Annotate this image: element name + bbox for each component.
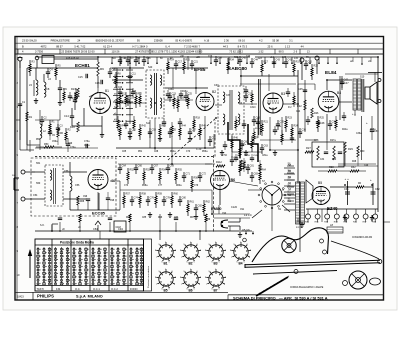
resistor R113 (240, 160, 242, 171)
resistor R29 (344, 142, 346, 154)
svg-text:C16: C16 (95, 82, 100, 85)
svg-text:C69: C69 (170, 165, 175, 168)
svg-text:235608: 235608 (154, 39, 163, 43)
svg-text:+ +: + + (352, 113, 356, 116)
svg-text:O.C.1: O.C.1 (93, 287, 100, 291)
svg-text:C82: C82 (198, 205, 203, 208)
svg-text:C77: C77 (158, 185, 163, 187)
svg-text:O.C.2: O.C.2 (111, 287, 118, 291)
output transformer S9 (353, 79, 357, 110)
svg-text:C73: C73 (124, 185, 129, 187)
svg-text:B5003429 03 01 237097: B5003429 03 01 237097 (96, 39, 125, 43)
IF can T2 (218, 86, 244, 134)
svg-text:C83: C83 (254, 173, 259, 176)
dial cord main (252, 228, 329, 262)
svg-text:R45: R45 (202, 125, 207, 128)
svg-text:B3: B3 (214, 262, 218, 266)
frame border (15, 37, 384, 301)
tuner dashed box (31, 158, 116, 216)
svg-text:C47: C47 (344, 82, 349, 85)
IF can T1 (146, 70, 164, 118)
transformer S ladder (287, 165, 294, 167)
svg-text:27 43763787385 2 1378 773 1 12: 27 43763787385 2 1378 773 1 1250 41263 1… (135, 50, 203, 54)
svg-text:C59a: C59a (52, 141, 58, 143)
svg-text:C8: C8 (46, 87, 50, 91)
svg-text:EM80: EM80 (211, 206, 222, 211)
header row text (22, 39, 310, 54)
svg-text:73 62 150 2: 73 62 150 2 (229, 50, 243, 54)
svg-text:R60: R60 (174, 193, 179, 196)
svg-text:C76a: C76a (84, 141, 90, 143)
svg-text:H 7 1 2864 0: H 7 1 2864 0 (133, 44, 148, 48)
svg-text:C66: C66 (138, 165, 143, 168)
wire mesh 2 (16, 119, 20, 121)
wires under B1 (72, 125, 102, 127)
svg-text:C 20: C 20 (196, 148, 202, 151)
svg-text:C85: C85 (142, 217, 147, 219)
svg-text:R66: R66 (158, 217, 163, 219)
resistor R31 R32 (328, 170, 337, 172)
chassis stub (97, 225, 99, 231)
svg-text:23 50 SALDI: 23 50 SALDI (22, 39, 37, 43)
svg-text:COMANDO AM-FM: COMANDO AM-FM (352, 236, 372, 239)
tube B3 EABC80 (263, 93, 283, 113)
tuner lower parts (77, 196, 79, 205)
svg-text:C120: C120 (231, 206, 238, 209)
left coil L2 (40, 124, 42, 128)
svg-text:2-7356: 2-7356 (35, 50, 44, 54)
coil L8 (327, 227, 343, 233)
svg-text:R18: R18 (196, 117, 201, 120)
svg-text:R13: R13 (71, 88, 76, 91)
pot C120 (219, 190, 221, 205)
svg-text:R22: R22 (314, 65, 319, 68)
mid right band (274, 126, 276, 130)
svg-text:C91: C91 (240, 209, 245, 211)
svg-text:C70a: C70a (70, 147, 76, 149)
svg-text:Posizione Onda Media: Posizione Onda Media (60, 241, 94, 245)
switch strips (37, 247, 39, 284)
feedback box (312, 142, 344, 167)
tube B2 EF85 (196, 93, 214, 111)
svg-text:R58: R58 (142, 193, 147, 196)
svg-text:R21: R21 (264, 121, 269, 124)
switch contact ladder (284, 167, 295, 169)
svg-text:C80: C80 (182, 197, 187, 200)
top right corner wiring (345, 56, 378, 58)
mains plug (221, 220, 228, 228)
ground symbols (129, 134, 131, 137)
svg-text:B3: B3 (281, 92, 285, 96)
capacitor C14 (70, 115, 74, 117)
svg-text:R28: R28 (329, 166, 334, 169)
svg-text:8 4 75 3: 8 4 75 3 (238, 44, 248, 48)
svg-text:S.O.: S.O. (40, 225, 45, 227)
svg-text:C14: C14 (64, 114, 69, 118)
svg-text:R16a: R16a (182, 91, 188, 93)
svg-text:B5: B5 (164, 289, 168, 293)
dial pulley P1 (282, 238, 296, 252)
svg-text:a16 a16 a2: a16 a16 a2 (66, 56, 80, 60)
svg-text:C48: C48 (320, 122, 325, 125)
B+ rail right (297, 70, 299, 183)
svg-text:EL84: EL84 (325, 70, 337, 76)
svg-text:C57: C57 (192, 129, 197, 132)
svg-text:A 16: A 16 (204, 39, 210, 43)
resistor R112 (216, 165, 225, 167)
top right bus (255, 56, 345, 58)
svg-text:44 3: 44 3 (223, 44, 229, 48)
svg-text:55 08: 55 08 (272, 39, 279, 43)
svg-text:R53: R53 (146, 169, 151, 172)
svg-text:B4: B4 (337, 91, 341, 95)
tube B4 EL84 (318, 91, 339, 112)
tube base B1 (159, 245, 173, 259)
svg-text:R63a: R63a (244, 155, 250, 157)
svg-text:R62: R62 (206, 201, 211, 204)
coil L5 (36, 80, 38, 84)
svg-text:C68: C68 (154, 151, 159, 153)
svg-text:R68: R68 (80, 201, 85, 203)
svg-text:R19: R19 (296, 61, 301, 64)
dial rod (245, 260, 380, 265)
bottom bus taps (59, 222, 61, 231)
svg-text:EABC80: EABC80 (228, 66, 247, 72)
svg-text:C54: C54 (33, 194, 38, 197)
svg-text:Posizioni commutatore: Posizioni commutatore (147, 265, 150, 288)
resistor R50 (36, 146, 44, 148)
component field (119, 56, 121, 60)
svg-text:98 5: 98 5 (279, 50, 285, 54)
svg-text:R24a: R24a (342, 129, 348, 131)
svg-text:R61: R61 (190, 201, 195, 204)
svg-text:C50: C50 (374, 130, 379, 133)
svg-text:C81a: C81a (262, 155, 268, 157)
terminal T1 (21, 170, 25, 174)
ground g1 (35, 98, 37, 101)
svg-text:C58: C58 (64, 170, 69, 173)
svg-text:2 6: 2 6 (294, 50, 298, 54)
tube base B3 (209, 245, 223, 259)
svg-text:C74: C74 (134, 197, 139, 200)
antenna A1 (18, 57, 22, 61)
tube B5 EZ40 (312, 187, 330, 205)
svg-text:C78: C78 (166, 197, 171, 200)
svg-text:S51: S51 (36, 162, 41, 165)
svg-text:B2: B2 (189, 262, 193, 266)
svg-text:R25: R25 (320, 117, 325, 120)
coil L7 (70, 176, 72, 180)
svg-text:R22: R22 (297, 105, 302, 108)
svg-text:L3 L4: L3 L4 (244, 213, 252, 217)
svg-text:C65: C65 (122, 151, 127, 153)
svg-text:R16: R16 (180, 97, 185, 100)
svg-text:C6: C6 (63, 87, 67, 91)
svg-text:B: B (22, 44, 24, 48)
svg-text:C58: C58 (314, 139, 319, 142)
svg-text:1 13: 1 13 (285, 44, 291, 48)
svg-text:2 36: 2 36 (224, 39, 230, 43)
svg-text:C15: C15 (78, 76, 83, 79)
capacitor C13 (73, 99, 77, 101)
pointer hatch (256, 277, 288, 296)
svg-text:10423: 10423 (17, 296, 24, 299)
svg-text:R44: R44 (182, 125, 187, 128)
dipole bracket (14, 177, 19, 179)
svg-text:C 50: C 50 (222, 155, 228, 157)
header rule 1 (15, 42, 384, 44)
svg-text:R46: R46 (234, 137, 239, 140)
svg-text:R9: R9 (100, 67, 104, 71)
svg-text:B2: B2 (212, 90, 216, 94)
wire mesh (112, 67, 144, 69)
resistor row (306, 208, 378, 210)
svg-text:B4: B4 (239, 262, 243, 266)
svg-text:C70: C70 (186, 151, 191, 153)
tube B1 ECH81 (90, 93, 111, 114)
svg-text:C84: C84 (93, 227, 98, 231)
capacitor C6 (58, 87, 62, 89)
IF can T5 (45, 165, 63, 206)
svg-text:CORDA PELLEGRINO n FELPE: CORDA PELLEGRINO n FELPE (290, 286, 324, 289)
svg-text:R60a: R60a (176, 185, 182, 187)
svg-text:R54a: R54a (170, 151, 176, 153)
svg-text:R112: R112 (216, 161, 222, 164)
tube base B7 (209, 272, 223, 286)
stepped trace 1 (228, 122, 240, 158)
svg-text:C23a: C23a (168, 89, 174, 91)
lamp box (42, 56, 54, 64)
svg-text:88 57: 88 57 (56, 44, 63, 48)
svg-text:R58a: R58a (142, 185, 148, 187)
svg-text:TASTI: TASTI (37, 287, 44, 291)
svg-text:C76: C76 (150, 197, 155, 200)
svg-text:1 52: 1 52 (258, 50, 264, 54)
svg-text:ECC85: ECC85 (92, 211, 106, 216)
svg-text:C67: C67 (154, 165, 159, 168)
svg-text:F.M.: F.M. (56, 287, 61, 291)
svg-text:R27a: R27a (330, 139, 336, 142)
terminal T3 (300, 58, 304, 62)
AGC dashed line (35, 156, 215, 158)
svg-text:B1: B1 (164, 262, 168, 266)
svg-text:C79: C79 (194, 185, 199, 187)
bottom bus (35, 230, 252, 232)
svg-text:EZ40: EZ40 (327, 206, 338, 211)
svg-text:R26: R26 (314, 112, 319, 115)
svg-text:C98: C98 (110, 200, 115, 202)
svg-text:S14: S14 (146, 123, 151, 125)
svg-text:7 2 50 4660 7: 7 2 50 4660 7 (184, 44, 200, 48)
speaker (365, 87, 370, 99)
coil L6 (44, 82, 46, 86)
wire C84 row (51, 224, 53, 231)
resistor R13 (77, 88, 79, 98)
svg-text:C36: C36 (302, 129, 307, 132)
svg-text:C33a: C33a (276, 126, 282, 128)
svg-text:C34: C34 (320, 159, 325, 161)
svg-text:C57a: C57a (84, 145, 90, 147)
svg-text:C53: C53 (152, 129, 157, 132)
svg-text:C43: C43 (276, 59, 281, 62)
left feeder parts (18, 103, 22, 105)
terminal T4 (315, 56, 319, 60)
svg-text:R67: R67 (190, 217, 195, 219)
terminal T2 (21, 197, 25, 201)
vertical dash line (213, 155, 215, 232)
svg-text:R29: R29 (348, 147, 353, 151)
svg-text:S50: S50 (36, 182, 41, 185)
header ticks (17, 49, 19, 54)
svg-text:C21: C21 (194, 61, 199, 64)
svg-text:S10: S10 (360, 76, 365, 79)
svg-text:C71: C71 (186, 173, 191, 176)
svg-text:C118: C118 (116, 227, 122, 229)
svg-text:C37: C37 (226, 95, 231, 97)
svg-text:SCHEMA DI PRINCIPIO — APP.: SCHEMA DI PRINCIPIO — APP. SI 530 A / SI… (233, 295, 328, 300)
junction dots (97, 56, 99, 58)
svg-text:C56: C56 (75, 184, 80, 187)
svg-text:C310: C310 (250, 107, 256, 109)
C50 branch (361, 116, 363, 160)
tube base B5 (159, 272, 173, 286)
rotary switch S (262, 185, 282, 205)
svg-text:R21a: R21a (255, 128, 261, 130)
pin stubs top (111, 57, 113, 63)
band switch rail (116, 68, 118, 122)
transformer funnel (306, 180, 313, 203)
svg-text:PREALESTORE: PREALESTORE (51, 39, 70, 43)
switch table frame (35, 239, 144, 291)
svg-text:R24: R24 (294, 125, 299, 128)
svg-text:B7: B7 (214, 289, 218, 293)
tube B6 EM80 (211, 171, 230, 190)
power transformer S10 (296, 182, 300, 224)
svg-text:C62: C62 (375, 188, 380, 191)
density components (63, 88, 65, 92)
svg-text:5-41 7 02: 5-41 7 02 (74, 44, 86, 48)
svg-text:C61: C61 (344, 188, 349, 191)
svg-text:C64: C64 (122, 165, 127, 168)
svg-text:R32: R32 (351, 166, 356, 169)
diagonal dash line (168, 118, 216, 160)
svg-text:FONO: FONO (130, 287, 138, 291)
table side label (144, 239, 152, 291)
svg-text:R55: R55 (178, 169, 183, 172)
resistor R27 (305, 151, 314, 153)
svg-text:R30: R30 (332, 159, 337, 161)
svg-text:C63: C63 (264, 145, 269, 148)
svg-text:3 1: 3 1 (289, 39, 293, 43)
svg-text:C81: C81 (250, 165, 255, 168)
svg-text:PHILIPS: PHILIPS (37, 294, 54, 299)
box C118 (114, 221, 126, 232)
header rule 3 (15, 53, 384, 55)
svg-text:S20: S20 (148, 66, 153, 69)
svg-text:R56a: R56a (202, 151, 208, 153)
tube base B6 (184, 272, 198, 286)
svg-text:C96: C96 (83, 196, 88, 198)
svg-text:06 16: 06 16 (238, 39, 245, 43)
resistor R10 (77, 122, 79, 132)
tube base B2 (184, 245, 198, 259)
svg-text:R59: R59 (158, 193, 163, 196)
dial rod 2 (253, 271, 337, 275)
svg-text:R50: R50 (44, 143, 49, 146)
svg-text:+: + (366, 121, 368, 125)
svg-text:R51: R51 (138, 151, 143, 153)
band switch ladder (113, 69, 121, 71)
svg-text:R10: R10 (70, 125, 75, 129)
inner frame line (16, 37, 18, 301)
dial pulley P2 (349, 271, 367, 289)
svg-text:R47a: R47a (241, 144, 247, 146)
wires tuner (63, 171, 87, 173)
svg-text:S.p.A MILANO: S.p.A MILANO (76, 295, 103, 299)
svg-text:+: + (370, 178, 372, 182)
svg-text:O.C.: O.C. (75, 287, 81, 291)
antenna terminal (35, 56, 39, 60)
svg-text:C17: C17 (178, 61, 183, 64)
svg-text:B6: B6 (189, 289, 193, 293)
svg-text:61 23 4: 61 23 4 (103, 44, 112, 48)
resistor R4 (356, 186, 364, 188)
svg-text:C11: C11 (132, 73, 137, 76)
stepped trace 2 (248, 124, 258, 162)
svg-text:C44: C44 (296, 111, 301, 113)
svg-text:R64: R64 (262, 169, 267, 172)
wire top bus (27, 67, 98, 69)
svg-text:R54: R54 (162, 169, 167, 172)
svg-text:05 41 6-00970: 05 41 6-00970 (175, 39, 192, 43)
title strip divider vertical (227, 295, 229, 300)
svg-text:R30: R30 (360, 150, 365, 153)
svg-text:R23: R23 (288, 117, 293, 120)
svg-text:C29: C29 (208, 56, 213, 58)
header rule 2 (15, 48, 384, 50)
bus wires 3 (37, 56, 145, 58)
svg-text:C72: C72 (202, 173, 207, 176)
svg-text:25 6: 25 6 (267, 44, 273, 48)
svg-text:R27: R27 (306, 146, 311, 150)
electrolytic C61 (347, 181, 349, 205)
resistor R9 (97, 62, 99, 76)
svg-text:110-26: 110-26 (112, 50, 120, 54)
svg-text:ECH81: ECH81 (75, 63, 90, 68)
electrolytic C62 (372, 183, 374, 205)
EL84 wiring (326, 80, 328, 90)
svg-text:B5: B5 (318, 181, 322, 185)
svg-text:4872: 4872 (41, 44, 47, 48)
svg-text:+ +: + + (345, 177, 350, 181)
svg-text:4 2: 4 2 (259, 39, 263, 43)
tube base B4 (234, 245, 248, 259)
arrow indicator (29, 250, 31, 278)
svg-text:R56: R56 (194, 177, 199, 180)
tube B8 ECC85 (88, 170, 108, 190)
svg-text:C20: C20 (118, 87, 123, 89)
title strip divider line left (15, 291, 228, 293)
svg-text:IL 4: IL 4 (165, 44, 170, 48)
svg-text:R28: R28 (352, 161, 357, 163)
rotary contacts (284, 194, 286, 196)
svg-text:23 55606 76378 28 56 52-50: 23 55606 76378 28 56 52-50 (61, 50, 95, 54)
svg-text:R57: R57 (126, 193, 131, 196)
svg-text:R52: R52 (130, 169, 135, 172)
svg-text:B1: B1 (105, 89, 109, 93)
svg-text:C45: C45 (298, 88, 303, 91)
band y160 right (232, 151, 262, 153)
